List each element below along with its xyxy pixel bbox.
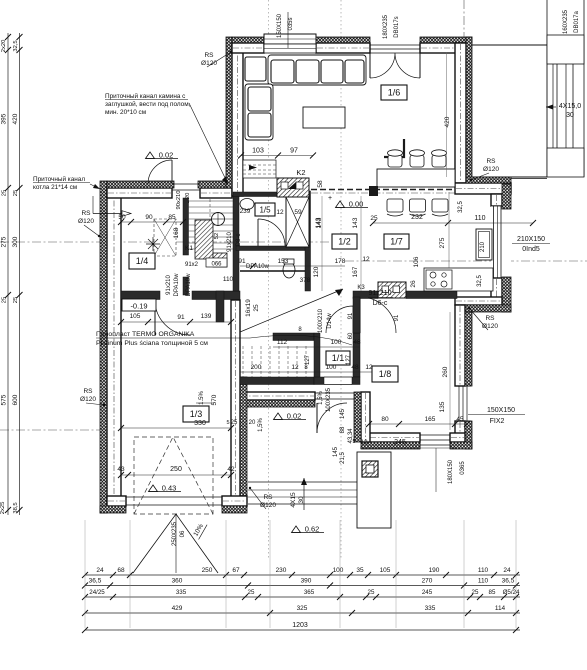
svg-text:120: 120 [313, 266, 320, 277]
svg-text:DPA10w: DPA10w [246, 264, 270, 270]
dim garage 330 570 [121, 427, 231, 429]
wall living-room top masonry [232, 43, 264, 53]
svg-text:26: 26 [410, 280, 417, 288]
svg-text:Приточный канал камина с: Приточный канал камина с [105, 92, 186, 100]
svg-text:100: 100 [333, 567, 344, 574]
interior wall 1/1 right [353, 341, 360, 377]
svg-text:D6-c: D6-c [373, 300, 388, 307]
svg-text:K3: K3 [357, 285, 365, 291]
svg-text:143: 143 [352, 217, 359, 228]
stair treads in hall [188, 200, 233, 202]
svg-text:360: 360 [172, 578, 183, 585]
sofa horizontal section [268, 55, 366, 85]
svg-text:250: 250 [202, 567, 213, 574]
svg-text:239: 239 [240, 208, 251, 215]
svg-text:48: 48 [353, 339, 361, 346]
garage door swing triangle outside [133, 514, 218, 573]
axis line vertical C [463, 0, 465, 140]
bottom dimension row 5 total 1203 [85, 629, 520, 631]
wall living-room left masonry [232, 43, 243, 196]
level 0.62 outside [292, 526, 301, 533]
svg-text:420: 420 [12, 113, 19, 124]
svg-text:395: 395 [1, 113, 8, 124]
svg-text:32,5: 32,5 [477, 275, 483, 287]
svg-text:168: 168 [173, 227, 180, 238]
wall west-wing top insulation [107, 181, 174, 188]
svg-text:429: 429 [172, 605, 183, 612]
shaft with X next to shower [286, 197, 309, 247]
svg-text:1/3: 1/3 [190, 409, 203, 419]
window 180X150 in bottom wall [420, 434, 450, 436]
interior wall bottom of 1/4 [121, 291, 160, 300]
svg-text:066: 066 [211, 262, 222, 268]
axis line horizontal right [345, 260, 587, 262]
svg-text:12: 12 [291, 364, 299, 371]
svg-text:25: 25 [253, 304, 260, 312]
svg-text:0.62: 0.62 [305, 524, 320, 533]
wall living-room top insulation [232, 37, 264, 43]
svg-text:135: 135 [439, 401, 446, 412]
svg-text:85: 85 [489, 589, 496, 596]
svg-text:1/1: 1/1 [332, 353, 345, 363]
wall room-1/8 right masonry lower [455, 421, 465, 442]
svg-text:Ø120: Ø120 [80, 396, 96, 403]
svg-text:мин. 20*10 см: мин. 20*10 см [105, 109, 146, 116]
svg-text:43,34: 43,34 [348, 428, 354, 444]
interior nook wall near 1/3 door [216, 291, 224, 322]
svg-text:21,5: 21,5 [340, 452, 346, 464]
interior wall below shower 1/5 [236, 246, 310, 251]
svg-text:390: 390 [301, 578, 312, 585]
svg-text:DPA10w: DPA10w [174, 273, 180, 297]
svg-text:210: 210 [480, 241, 486, 252]
bottom dimension row 2 [85, 585, 520, 587]
svg-text:Ø120: Ø120 [482, 323, 498, 330]
balcony double door arcs [369, 53, 371, 78]
partition line in WC zone [240, 270, 305, 272]
svg-text:143: 143 [315, 217, 322, 228]
svg-text:12: 12 [362, 256, 370, 263]
svg-text:1,5%: 1,5% [258, 418, 264, 432]
black post at counter end [369, 186, 378, 196]
wall kitchen bottom masonry [455, 297, 502, 305]
kitchen dims 25 232 110 [373, 222, 533, 224]
svg-text:2x25: 2x25 [0, 502, 6, 515]
svg-text:035s: 035s [288, 17, 294, 30]
svg-text:335: 335 [176, 589, 187, 596]
svg-text:42: 42 [227, 466, 235, 473]
axis line horizontal left [0, 241, 345, 243]
svg-text:24/25: 24/25 [89, 589, 105, 596]
room label 1/3 [183, 406, 209, 422]
svg-text:24: 24 [503, 567, 511, 574]
svg-text:59: 59 [294, 209, 302, 216]
dims 80 165 45 porch [369, 423, 467, 425]
svg-text:DB017a: DB017a [574, 10, 580, 32]
screen wall L at bar [384, 139, 404, 157]
wall kitchen bottom insulation [455, 305, 511, 312]
svg-text:58: 58 [317, 180, 324, 188]
svg-text:25: 25 [13, 190, 19, 196]
svg-text:91x2: 91x2 [185, 262, 199, 268]
window 150X150 in living top wall [264, 34, 316, 44]
svg-text:250X235: 250X235 [172, 521, 178, 546]
boiler K block [195, 220, 213, 259]
wall living-room right masonry [455, 43, 466, 183]
kitchen dim extension line [448, 192, 450, 268]
svg-text:260: 260 [442, 366, 449, 377]
room label 1/4 [129, 253, 155, 269]
svg-text:Приточный канал: Приточный канал [33, 175, 85, 183]
svg-text:114: 114 [495, 605, 506, 612]
window 210X150 in kitchen right wall [491, 206, 511, 278]
interior wall between 1/4 and hall [183, 198, 189, 255]
svg-text:1/6: 1/6 [388, 88, 401, 98]
wall porch left insulation [354, 392, 361, 442]
dims 1/1 row 112 100 48 [273, 346, 360, 348]
dims row y264 153 178 [240, 265, 345, 267]
left dimension lines [7, 33, 9, 515]
svg-text:Ø120: Ø120 [78, 218, 94, 225]
svg-text:150X150: 150X150 [277, 13, 283, 38]
svg-text:230: 230 [276, 567, 287, 574]
svg-text:0.02: 0.02 [287, 411, 302, 420]
dims 1/1 row2 200 12 8 100 48 12 [240, 371, 372, 373]
level 0.00 dining [336, 201, 345, 208]
chimney block near kitchen [378, 282, 406, 298]
door arc 1/1 to hall [326, 306, 353, 333]
dims garage 43 250 42 [121, 474, 231, 476]
dims row 105 91 139 [121, 321, 231, 323]
interior wall 1/1 left [314, 333, 320, 384]
svg-text:100: 100 [326, 364, 337, 371]
bar counter [377, 169, 455, 187]
axis line horizontal lower-left stub [0, 429, 100, 431]
WC toilet [283, 262, 295, 278]
svg-text:1/8: 1/8 [379, 369, 392, 379]
interior wall right of 1/5 [305, 191, 311, 291]
room label 1/1 [326, 351, 350, 365]
svg-text:4X15: 4X15 [290, 492, 297, 508]
svg-text:16x19: 16x19 [245, 299, 252, 317]
svg-text:RS: RS [204, 52, 214, 59]
svg-text:270: 270 [422, 578, 433, 585]
svg-text:32,5: 32,5 [13, 40, 19, 51]
svg-text:91: 91 [177, 314, 185, 321]
room label 1/7 [384, 234, 409, 249]
svg-text:0.02: 0.02 [159, 150, 174, 159]
coffee table [303, 107, 345, 128]
interior wall hall bottom [240, 377, 314, 385]
wall west exterior masonry [107, 188, 121, 506]
wall room-1/8 right insulation [465, 312, 472, 386]
room label 1/6 [381, 85, 407, 100]
svg-text:0365: 0365 [460, 461, 466, 475]
svg-text:90: 90 [145, 214, 153, 221]
svg-text:139: 139 [201, 313, 212, 320]
svg-text:275: 275 [439, 237, 446, 248]
svg-text:Пенопласт TERMO ORGANIKA: Пенопласт TERMO ORGANIKA [96, 331, 195, 338]
svg-text:12: 12 [360, 439, 368, 446]
wall kitchen top-right insulation [466, 177, 511, 183]
svg-text:88: 88 [340, 426, 346, 433]
svg-text:Ø120: Ø120 [260, 502, 276, 509]
chimney K2 block [277, 178, 309, 197]
interior wall hall/1-5 divider [233, 196, 239, 291]
garage door dashed rectangle [134, 437, 213, 514]
room label 1/8 [372, 366, 398, 382]
svg-text:420: 420 [444, 116, 451, 127]
vestibule bottom door lines [324, 376, 352, 378]
svg-text:127: 127 [305, 354, 311, 365]
svg-text:D8-c: D8-c [236, 234, 242, 247]
svg-text:2x20: 2x20 [1, 40, 7, 53]
svg-text:245: 245 [422, 589, 433, 596]
svg-text:25: 25 [13, 297, 19, 303]
wall kitchen right masonry lower [491, 278, 502, 305]
wall porch left masonry [361, 392, 370, 442]
level 0.02 upper [146, 152, 155, 159]
svg-text:153: 153 [278, 258, 289, 265]
svg-text:105: 105 [380, 567, 391, 574]
svg-text:180X235: 180X235 [383, 14, 389, 39]
svg-text:38,5: 38,5 [13, 502, 19, 513]
svg-text:-0.19: -0.19 [130, 302, 147, 311]
svg-text:RS: RS [485, 315, 495, 322]
svg-text:97: 97 [290, 148, 298, 155]
door arc from corridor to 1/3 [155, 300, 190, 335]
svg-text:112: 112 [277, 339, 288, 346]
svg-text:24: 24 [96, 567, 104, 574]
svg-text:Ø120: Ø120 [483, 166, 499, 173]
svg-text:25: 25 [231, 420, 238, 426]
door D20 opening in west-wing top wall [172, 183, 200, 185]
svg-text:25: 25 [368, 589, 375, 596]
axis line vertical B [340, 0, 342, 560]
closet with shelves [243, 160, 276, 178]
svg-text:200: 200 [251, 364, 262, 371]
svg-text:36,5: 36,5 [502, 578, 515, 585]
bottom dimension row 3 [85, 596, 520, 598]
wall south of vestibule masonry [240, 392, 315, 400]
svg-text:25: 25 [370, 215, 378, 222]
balcony door opening lines [370, 44, 420, 46]
terrace outline upper right [472, 44, 547, 46]
svg-text:45: 45 [456, 416, 464, 423]
bar stools above counter [388, 155, 402, 167]
leader to top wall [189, 103, 228, 184]
wall garage right insulation [240, 377, 247, 506]
svg-text:330: 330 [194, 420, 206, 427]
beam dashed lines over bar [311, 189, 455, 191]
svg-text:190: 190 [429, 567, 440, 574]
svg-text:1/4: 1/4 [136, 256, 149, 266]
svg-text:110: 110 [223, 276, 234, 283]
svg-text:1.5%: 1.5% [199, 391, 205, 405]
svg-text:90x210: 90x210 [176, 190, 182, 209]
wall room-1/8 bottom masonry [369, 433, 420, 442]
dims 50 90 85 room 1/4 [121, 221, 183, 223]
svg-text:335: 335 [425, 605, 436, 612]
wall living-room left insulation [226, 37, 232, 188]
svg-text:+: + [328, 195, 332, 202]
svg-text:5: 5 [226, 420, 229, 426]
interior wall stub above 1/1 [353, 297, 360, 333]
bottom extension lines [84, 520, 86, 628]
wall garage bottom insulation [100, 506, 126, 513]
svg-text:RS: RS [81, 210, 91, 217]
svg-text:91: 91 [348, 312, 354, 319]
wall kitchen right insulation [502, 184, 511, 209]
axis line vertical A [268, 0, 270, 560]
svg-text:145: 145 [333, 446, 339, 457]
interior wall top of 1/5 [233, 192, 277, 197]
interior wall kitchen bottom right part [406, 291, 457, 299]
svg-text:145: 145 [340, 408, 346, 419]
svg-text:RS: RS [263, 494, 273, 501]
svg-text:заглушкой, вести под полом,: заглушкой, вести под полом, [105, 100, 191, 108]
svg-text:275: 275 [1, 236, 8, 247]
fridge unit 210 [476, 229, 492, 260]
svg-text:50: 50 [118, 214, 126, 221]
svg-text:0Ind5: 0Ind5 [522, 246, 540, 253]
dims 1/8 260 245 12 [449, 312, 451, 430]
svg-text:100X235: 100X235 [326, 387, 332, 412]
window 150X150 FIX2 in right wall [455, 385, 471, 387]
cross symbol in 1/4 [146, 237, 160, 251]
svg-text:100X210: 100X210 [318, 308, 324, 333]
svg-text:52: 52 [214, 233, 220, 239]
svg-text:25: 25 [2, 190, 8, 196]
svg-text:103: 103 [252, 148, 264, 155]
svg-text:20: 20 [249, 420, 256, 426]
svg-text:110: 110 [478, 578, 489, 585]
wall garage right masonry [231, 300, 240, 505]
wall kitchen right masonry upper [491, 194, 502, 206]
dining thin boundary lines [321, 196, 323, 291]
sofa corner cushion [245, 57, 266, 81]
svg-text:245: 245 [394, 439, 406, 446]
slope label 10% [192, 521, 207, 540]
svg-text:48: 48 [351, 364, 359, 371]
level 0.02 porch [274, 413, 283, 420]
svg-text:36,5: 36,5 [89, 578, 102, 585]
svg-text:250: 250 [170, 466, 182, 473]
svg-text:378: 378 [300, 277, 311, 284]
porch column structure [357, 452, 391, 528]
svg-text:300: 300 [12, 236, 19, 247]
svg-text:91x210: 91x210 [227, 231, 233, 251]
door arc hall to 1/8 [360, 297, 396, 333]
svg-text:30: 30 [566, 112, 574, 119]
svg-text:RS: RS [83, 388, 93, 395]
wall living-room right insulation [466, 37, 472, 183]
svg-text:91x210: 91x210 [369, 290, 392, 297]
svg-text:575: 575 [1, 394, 8, 405]
wall south of vestibule insulation [240, 400, 315, 407]
svg-text:4X15,0: 4X15,0 [559, 103, 581, 110]
svg-text:D14w: D14w [327, 313, 333, 329]
washbasin 1/5 [240, 199, 254, 210]
svg-text:25: 25 [2, 297, 8, 303]
level -0.19 box [122, 299, 156, 311]
svg-text:K1: K1 [185, 245, 193, 252]
svg-text:1/2: 1/2 [338, 237, 351, 247]
svg-text:325: 325 [297, 605, 308, 612]
svg-text:68: 68 [117, 567, 125, 574]
svg-text:80: 80 [381, 416, 389, 423]
svg-text:160X235: 160X235 [563, 9, 569, 34]
bottom dimension row 4 [85, 612, 520, 614]
svg-text:котла 21*14 см: котла 21*14 см [33, 184, 77, 191]
svg-text:178: 178 [335, 258, 346, 265]
svg-text:210X150: 210X150 [517, 236, 545, 243]
entrance door opening and arc [315, 392, 354, 394]
chimney square in porch column [362, 461, 378, 477]
interior wall kitchen bottom left part [353, 291, 378, 299]
kitchen counter with stove [424, 268, 493, 291]
bottom dimension row 1 [85, 574, 520, 576]
svg-text:K2: K2 [296, 168, 305, 177]
svg-text:06: 06 [180, 530, 186, 537]
lower stair flight dashes in hall [242, 346, 244, 377]
svg-text:12: 12 [276, 209, 284, 216]
svg-text:91x210: 91x210 [166, 274, 172, 294]
wall room-1/8 right masonry upper [455, 305, 465, 386]
svg-text:1203: 1203 [292, 622, 308, 629]
svg-text:600: 600 [12, 394, 19, 405]
svg-text:110: 110 [474, 215, 485, 222]
svg-text:127: 127 [346, 354, 352, 365]
interior wall 1/1 top [273, 333, 314, 341]
svg-text:25: 25 [472, 589, 479, 596]
room label 1/2 [332, 234, 357, 249]
level -0.43 garage [149, 485, 158, 492]
svg-text:150X150: 150X150 [487, 407, 515, 414]
dim 420 extension line [446, 52, 448, 177]
svg-text:570: 570 [211, 394, 218, 405]
svg-text:43: 43 [117, 466, 125, 473]
svg-text:106: 106 [413, 256, 420, 267]
garage door opening lines [126, 496, 222, 498]
wall west-wing top masonry left [107, 188, 172, 198]
svg-text:1/5: 1/5 [259, 205, 271, 214]
svg-text:100: 100 [331, 339, 342, 346]
svg-text:1,5%: 1,5% [318, 391, 324, 405]
svg-text:60: 60 [348, 332, 354, 339]
svg-text:365: 365 [304, 589, 315, 596]
boiler unit circle [212, 213, 225, 226]
supply duct arrow into room 1/4 [93, 213, 124, 215]
svg-text:110: 110 [478, 567, 489, 574]
dims 103 97 hall top [241, 155, 313, 157]
svg-text:91: 91 [394, 314, 400, 321]
room label 1/5 [255, 203, 275, 216]
svg-text:Ø5/24: Ø5/24 [503, 589, 520, 596]
svg-text:Platinum Plus ściana толщиной: Platinum Plus ściana толщиной 5 см [96, 339, 208, 347]
interior wall bottom of WC area [192, 291, 240, 300]
svg-text:25: 25 [248, 589, 255, 596]
wall west exterior insulation [100, 181, 107, 513]
svg-text:12: 12 [365, 364, 373, 371]
svg-text:105: 105 [130, 313, 141, 320]
wardrobe with X in 1/4 [154, 219, 176, 256]
outdoor stair right structure [546, 0, 548, 45]
svg-text:165: 165 [425, 416, 436, 423]
entrance steps 4x15 [248, 481, 359, 483]
svg-text:180X150: 180X150 [448, 459, 454, 484]
svg-text:32,5: 32,5 [458, 201, 464, 213]
